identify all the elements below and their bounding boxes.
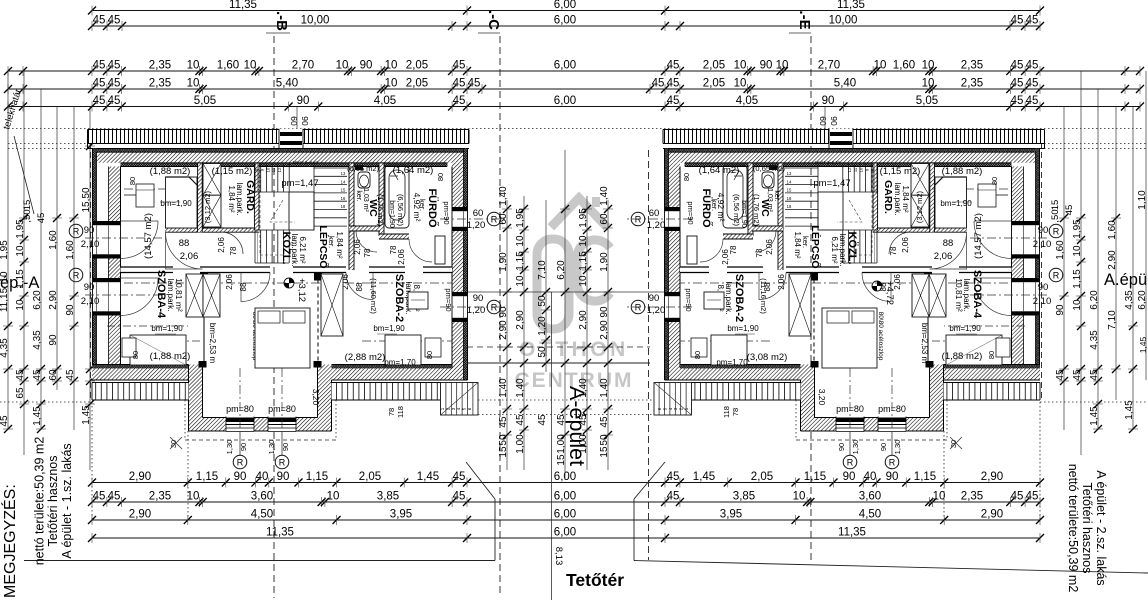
svg-text:1,15: 1,15 (306, 471, 328, 483)
svg-text:2,70: 2,70 (818, 60, 840, 72)
svg-text:1,00: 1,00 (556, 434, 567, 454)
svg-text:2,05: 2,05 (359, 471, 381, 483)
svg-text:2,06: 2,06 (934, 251, 953, 262)
svg-text:1,15: 1,15 (15, 269, 26, 289)
svg-text:R: R (635, 215, 642, 225)
svg-text:1,20: 1,20 (537, 316, 548, 336)
svg-text:(0,65 m2): (0,65 m2) (347, 164, 380, 173)
svg-text:10: 10 (578, 235, 589, 247)
svg-text:15: 15 (498, 446, 509, 458)
svg-text:ker.: ker. (355, 190, 362, 201)
building left: windows gap side (451, 207, 468, 231)
svg-text:90: 90 (829, 116, 839, 126)
svg-text:45: 45 (93, 60, 106, 72)
svg-text:6,00: 6,00 (554, 95, 576, 107)
svg-text:6,21 m²: 6,21 m² (298, 236, 307, 263)
svg-text:45: 45 (1011, 491, 1024, 503)
svg-text:10: 10 (859, 167, 864, 172)
svg-text:80: 80 (436, 173, 445, 181)
svg-text:A épület - 2.sz. lakás: A épület - 2.sz. lakás (1094, 470, 1108, 585)
svg-text:10,00: 10,00 (829, 15, 858, 27)
svg-text:pm=90: pm=90 (684, 288, 693, 311)
section line B (273, 36, 275, 598)
svg-text:2,05: 2,05 (751, 471, 773, 483)
section line C (499, 36, 501, 594)
svg-text:1,95: 1,95 (0, 240, 10, 260)
svg-text:2,06: 2,06 (721, 249, 730, 265)
svg-text:18: 18 (787, 204, 792, 209)
building right: roof overhang band (663, 130, 1045, 144)
svg-text:1,15: 1,15 (804, 471, 826, 483)
svg-text:R: R (279, 458, 286, 468)
svg-text:Tetőtéri hasznos: Tetőtéri hasznos (1080, 482, 1094, 573)
svg-text:bm=1,90: bm=1,90 (388, 200, 395, 228)
svg-text:2,90: 2,90 (981, 471, 1003, 483)
svg-text:10: 10 (922, 60, 935, 72)
svg-text:45: 45 (667, 95, 680, 107)
terrace level marks left (233, 455, 247, 469)
svg-text:80: 80 (131, 351, 140, 359)
svg-text:2,10: 2,10 (81, 296, 100, 307)
svg-text:1,10: 1,10 (1137, 190, 1148, 210)
svg-text:45: 45 (108, 15, 121, 27)
bottom dimension row 1 (92, 482, 1040, 484)
building left: level mark (284, 278, 294, 288)
svg-text:(1,15 m2): (1,15 m2) (212, 166, 253, 177)
svg-text:15: 15 (787, 188, 792, 193)
svg-text:5,05: 5,05 (194, 95, 216, 107)
svg-text:.-E: .-E (796, 10, 813, 29)
svg-text:45: 45 (578, 414, 589, 426)
svg-text:6,20: 6,20 (1137, 290, 1148, 310)
svg-text:45: 45 (1072, 369, 1083, 381)
svg-text:1,45: 1,45 (32, 406, 43, 426)
svg-text:45: 45 (667, 78, 680, 90)
svg-text:45: 45 (667, 491, 680, 503)
svg-text:90: 90 (360, 60, 373, 72)
svg-text:80: 80 (987, 351, 996, 359)
svg-text:pm=1,70: pm=1,70 (716, 358, 748, 367)
svg-text:10: 10 (385, 78, 398, 90)
svg-text:10: 10 (336, 60, 349, 72)
top dimension row 4 (8, 88, 1140, 90)
svg-text:11: 11 (853, 167, 858, 172)
svg-text:2,05: 2,05 (406, 60, 428, 72)
svg-text:88: 88 (179, 238, 190, 249)
svg-text:11,35: 11,35 (266, 527, 294, 539)
svg-text:90: 90 (1038, 282, 1049, 293)
svg-text:R: R (847, 458, 854, 468)
building right: WC (762, 172, 774, 188)
svg-text:,50: ,50 (1050, 209, 1061, 222)
building left: GARD wardrobe (203, 164, 221, 196)
svg-text:R: R (73, 227, 80, 237)
svg-text:3,60: 3,60 (859, 491, 881, 503)
svg-text:Tetőtéri hasznos: Tetőtéri hasznos (46, 455, 60, 546)
svg-text:18x17,2=3,12: 18x17,2=3,12 (292, 160, 318, 165)
building right: windows gap side (664, 207, 681, 231)
svg-text:pm=1,47: pm=1,47 (813, 178, 850, 189)
building left: FURDO bathroom (385, 165, 409, 228)
svg-text:2,05: 2,05 (703, 78, 725, 90)
svg-text:90: 90 (760, 60, 773, 72)
svg-text:(1,64 m2): (1,64 m2) (699, 165, 740, 176)
svg-text:2,35: 2,35 (961, 491, 983, 503)
svg-text:1,90: 1,90 (498, 252, 509, 272)
svg-text:10: 10 (244, 60, 257, 72)
svg-text:lam.park.: lam.park. (166, 279, 175, 312)
svg-text:45: 45 (652, 78, 665, 90)
svg-text:1,30: 1,30 (893, 440, 902, 455)
svg-text:ker.: ker. (773, 190, 780, 201)
svg-text:6,00: 6,00 (554, 491, 576, 503)
svg-text:(11,16 m2): (11,16 m2) (759, 278, 768, 314)
right dimension chains (1063, 107, 1065, 431)
svg-text:2,06: 2,06 (777, 274, 786, 290)
svg-text:1,84 m²: 1,84 m² (793, 231, 802, 258)
svg-text:10: 10 (734, 60, 747, 72)
svg-text:80: 80 (425, 351, 434, 359)
svg-text:2,90: 2,90 (515, 310, 526, 330)
svg-text:45: 45 (36, 213, 47, 224)
building left: WC (358, 172, 370, 188)
svg-text:45: 45 (65, 369, 76, 381)
svg-text:(14,57 m2): (14,57 m2) (143, 213, 154, 259)
svg-text:1,40: 1,40 (498, 186, 509, 206)
svg-text:bm=1,90: bm=1,90 (160, 199, 192, 208)
svg-text:4,35: 4,35 (1124, 290, 1135, 310)
svg-text:45: 45 (453, 60, 466, 72)
svg-text:SZOBA-4: SZOBA-4 (971, 270, 983, 319)
svg-text:6,00: 6,00 (554, 15, 576, 27)
svg-text:R: R (635, 303, 642, 313)
svg-text:90: 90 (281, 443, 290, 451)
svg-text:90: 90 (599, 306, 610, 318)
svg-text:2,90: 2,90 (129, 471, 151, 483)
svg-text:SZOBA-4: SZOBA-4 (155, 270, 167, 319)
svg-text:(1,76 m2): (1,76 m2) (752, 194, 761, 227)
svg-text:1,45: 1,45 (81, 405, 92, 425)
svg-text:45: 45 (15, 369, 26, 381)
svg-text:bm=1,90: bm=1,90 (740, 200, 747, 228)
svg-text:pm=1,47: pm=1,47 (281, 178, 318, 189)
svg-text:10: 10 (0, 271, 10, 283)
svg-text:1,84 m²: 1,84 m² (227, 185, 236, 212)
building left: interior partitions (121, 267, 174, 273)
svg-text:1,95: 1,95 (578, 208, 589, 228)
svg-text:.-B: .-B (273, 11, 290, 31)
svg-text:2,06: 2,06 (765, 239, 774, 255)
svg-text:1,15: 1,15 (196, 471, 218, 483)
svg-text:1,95: 1,95 (1072, 219, 1083, 239)
svg-text:10: 10 (187, 60, 200, 72)
svg-text:10: 10 (515, 235, 526, 247)
svg-text:2,90: 2,90 (981, 509, 1003, 521)
svg-text:40: 40 (864, 471, 877, 483)
building right: GARD wardrobe (911, 164, 929, 196)
svg-text:2,90: 2,90 (578, 310, 589, 330)
svg-text:2,05: 2,05 (703, 60, 725, 72)
ground outline (466, 462, 495, 499)
svg-text:pm=90: pm=90 (686, 201, 695, 224)
svg-text:18x17,2=3,12: 18x17,2=3,12 (814, 160, 840, 165)
svg-text:10: 10 (734, 78, 747, 90)
svg-text:1,90: 1,90 (599, 252, 610, 272)
svg-text:+3,12: +3,12 (296, 278, 307, 302)
svg-text:45: 45 (93, 491, 106, 503)
svg-text:7,10: 7,10 (1107, 310, 1118, 330)
svg-text:2,05: 2,05 (406, 78, 428, 90)
svg-text:11,15: 11,15 (0, 287, 10, 312)
svg-text:(1,88 m2): (1,88 m2) (942, 166, 983, 177)
svg-text:5,05: 5,05 (916, 95, 938, 107)
svg-text:15: 15 (599, 446, 610, 458)
svg-text:90: 90 (822, 95, 835, 107)
svg-text:4,92 m²: 4,92 m² (412, 193, 422, 222)
svg-text:45: 45 (93, 95, 106, 107)
building left: terrace bands (92, 383, 189, 401)
svg-text:50: 50 (599, 434, 610, 446)
svg-text:45: 45 (1064, 205, 1075, 216)
svg-text:16: 16 (787, 196, 792, 201)
svg-text:90: 90 (649, 293, 660, 304)
svg-text:12: 12 (847, 167, 852, 172)
svg-text:45: 45 (93, 15, 106, 27)
svg-text:10: 10 (776, 60, 789, 72)
svg-text:1,60: 1,60 (1107, 220, 1118, 240)
svg-text:10: 10 (15, 245, 26, 257)
svg-text:40: 40 (256, 471, 269, 483)
svg-text:bm=1,90: bm=1,90 (151, 324, 183, 333)
property line telekhatar (8, 128, 1142, 130)
svg-text:65: 65 (15, 387, 26, 399)
svg-text:90: 90 (234, 471, 247, 483)
svg-text:3,85: 3,85 (377, 491, 399, 503)
svg-text:11,35: 11,35 (837, 0, 865, 11)
svg-text:bm=2,53 m: bm=2,53 m (208, 323, 217, 364)
svg-text:10: 10 (793, 491, 806, 503)
svg-text:5,40: 5,40 (834, 78, 856, 90)
svg-text:60: 60 (649, 208, 660, 219)
svg-text:90: 90 (473, 293, 484, 304)
svg-text:6,00: 6,00 (554, 527, 576, 539)
svg-text:(2,88 m2): (2,88 m2) (345, 352, 386, 363)
svg-text:ker.: ker. (327, 236, 336, 248)
svg-text:90: 90 (837, 443, 846, 451)
svg-text:45: 45 (108, 78, 121, 90)
svg-text:4,35: 4,35 (0, 338, 10, 358)
svg-text:78: 78 (755, 248, 764, 257)
svg-text:4,50: 4,50 (859, 509, 881, 521)
svg-text:78: 78 (729, 245, 738, 254)
svg-text:1,60: 1,60 (48, 230, 59, 250)
svg-text:2,06: 2,06 (397, 249, 406, 265)
svg-text:50: 50 (537, 346, 548, 358)
svg-text:11,35: 11,35 (838, 527, 866, 539)
svg-text:45: 45 (93, 78, 106, 90)
svg-text:1,40: 1,40 (599, 186, 610, 206)
svg-text:3,20: 3,20 (817, 389, 827, 406)
svg-text:10,81 m²: 10,81 m² (954, 278, 964, 312)
top dimension row 1 (92, 10, 1040, 12)
svg-text:bm=1,90: bm=1,90 (727, 324, 759, 333)
building left: stairs (254, 164, 256, 193)
svg-text:60: 60 (48, 369, 59, 381)
svg-text:1,15: 1,15 (1072, 269, 1083, 289)
svg-text:2,90: 2,90 (129, 509, 151, 521)
svg-text:(1,76 m2): (1,76 m2) (376, 194, 385, 227)
building right: terrace bands (944, 383, 1041, 401)
svg-text:SZOBA-2: SZOBA-2 (393, 274, 405, 322)
svg-text:90: 90 (84, 225, 95, 236)
svg-text:3,95: 3,95 (720, 509, 742, 521)
svg-text:A.épület: A.épület (1104, 271, 1148, 289)
svg-text:11,35: 11,35 (229, 0, 257, 11)
svg-text:45: 45 (667, 471, 680, 483)
building left: door arcs mid wall (166, 232, 203, 269)
svg-text:(3,08 m2): (3,08 m2) (747, 352, 788, 363)
svg-text:80: 80 (128, 177, 137, 185)
building left: outer walls (92, 149, 468, 153)
svg-text:45: 45 (667, 60, 680, 72)
svg-text:4,35: 4,35 (32, 330, 43, 350)
svg-text:90: 90 (297, 95, 310, 107)
svg-text:60: 60 (599, 213, 610, 225)
bottom dimension row 4 (92, 537, 1040, 539)
svg-text:2,90: 2,90 (599, 320, 610, 340)
building right: outer walls (665, 149, 1041, 153)
svg-text:1,84 m²: 1,84 m² (335, 231, 344, 258)
center dimension chains (506, 200, 508, 470)
svg-text:15: 15 (22, 200, 33, 211)
svg-text:nettó területe:50,39 m2: nettó területe:50,39 m2 (33, 437, 47, 566)
svg-text:15,50: 15,50 (81, 187, 92, 212)
svg-text:10: 10 (874, 60, 887, 72)
svg-text:10: 10 (1072, 299, 1083, 311)
svg-text:45: 45 (453, 491, 466, 503)
svg-text:1,00: 1,00 (578, 434, 589, 454)
svg-text:(1,15 m2): (1,15 m2) (880, 166, 921, 177)
svg-text:2,10: 2,10 (1033, 239, 1052, 250)
svg-text:bm=2,53 m: bm=2,53 m (920, 323, 929, 364)
svg-text:1,20: 1,20 (467, 220, 486, 231)
svg-text:45: 45 (1026, 15, 1039, 27)
svg-text:90: 90 (843, 471, 856, 483)
svg-text:2,06: 2,06 (225, 274, 234, 290)
svg-text:13: 13 (341, 171, 346, 176)
svg-text:90: 90 (879, 443, 888, 451)
svg-text:1,40: 1,40 (515, 378, 526, 398)
svg-text:90: 90 (300, 116, 310, 126)
svg-text:1,20: 1,20 (647, 220, 666, 231)
svg-text:88: 88 (943, 238, 954, 249)
svg-text:1,60: 1,60 (1055, 240, 1066, 260)
svg-text:2,90: 2,90 (48, 290, 59, 310)
svg-text:2,35: 2,35 (149, 78, 171, 90)
section line E (810, 36, 812, 560)
svg-text:4,50: 4,50 (251, 509, 273, 521)
svg-text:18: 18 (341, 204, 346, 209)
left dimension chains (7, 71, 9, 430)
svg-text:1,15: 1,15 (515, 251, 526, 271)
svg-text:45: 45 (599, 416, 610, 428)
svg-text:4,92 m²: 4,92 m² (716, 193, 726, 222)
svg-text:A épület - 1.sz. lakás: A épület - 1.sz. lakás (60, 443, 74, 558)
svg-text:1,03 m²: 1,03 m² (362, 188, 369, 212)
svg-text:50: 50 (537, 295, 548, 307)
svg-text:1,40: 1,40 (599, 378, 610, 398)
svg-text:2,06: 2,06 (180, 251, 199, 262)
svg-text:1,60: 1,60 (893, 60, 915, 72)
svg-text:10: 10 (327, 491, 340, 503)
svg-text:13: 13 (787, 171, 792, 176)
bottom dimension row 3 (92, 519, 1040, 521)
svg-text:5,40: 5,40 (276, 78, 298, 90)
svg-text:(6,56 m2): (6,56 m2) (396, 194, 405, 227)
svg-text:90: 90 (84, 282, 95, 293)
svg-text:4,05: 4,05 (736, 95, 758, 107)
building right: outside stairs (654, 383, 692, 416)
watermark Otthon Centrum logo (537, 197, 610, 329)
svg-text:45: 45 (108, 95, 121, 107)
svg-text:1,60: 1,60 (65, 240, 76, 260)
svg-text:10: 10 (187, 78, 200, 90)
svg-text:GARD.: GARD. (244, 180, 256, 214)
building right: terrace dashed outline (796, 439, 947, 441)
svg-text:1,45: 1,45 (693, 471, 715, 483)
svg-text:90: 90 (239, 443, 248, 451)
svg-text:2,06: 2,06 (217, 237, 226, 253)
svg-text:2,35: 2,35 (149, 60, 171, 72)
svg-text:GARD.: GARD. (882, 180, 894, 214)
svg-text:OTTHON: OTTHON (519, 338, 629, 361)
svg-text:45: 45 (1026, 95, 1039, 107)
building left: outside stairs (441, 383, 479, 416)
svg-text:pm=90: pm=90 (442, 201, 451, 224)
building right: windows left facade (1011, 221, 1041, 259)
terrace level marks right (885, 455, 899, 469)
svg-text:7,10: 7,10 (537, 260, 548, 280)
svg-text:1,45: 1,45 (417, 471, 439, 483)
svg-text:45: 45 (453, 471, 466, 483)
svg-text:80\80 acéloszlop: 80\80 acéloszlop (877, 312, 884, 361)
bottom dimension row 2 (92, 501, 1040, 503)
building right: level mark (872, 281, 882, 291)
svg-text:60: 60 (473, 208, 484, 219)
building right: door arcs mid wall (930, 232, 967, 269)
svg-text:6,20: 6,20 (32, 290, 43, 310)
svg-text:78: 78 (229, 246, 238, 255)
svg-text:10: 10 (265, 167, 270, 172)
svg-text:1,60: 1,60 (217, 60, 239, 72)
svg-text:(3,12 m2): (3,12 m2) (915, 190, 924, 223)
svg-text:(6,56 m2): (6,56 m2) (732, 194, 741, 227)
svg-text:1,03 m²: 1,03 m² (766, 188, 773, 212)
svg-text:R: R (491, 215, 498, 225)
building right: FURDO bathroom (723, 165, 747, 228)
svg-text:45: 45 (1011, 60, 1024, 72)
svg-text:3,85: 3,85 (733, 491, 755, 503)
svg-text:78: 78 (731, 408, 740, 416)
svg-text:45: 45 (537, 414, 548, 426)
svg-text:14: 14 (787, 179, 792, 184)
svg-text:12: 12 (277, 167, 282, 172)
svg-text:(0,65 m2): (0,65 m2) (753, 164, 786, 173)
svg-text:bm=1,90: bm=1,90 (940, 199, 972, 208)
svg-text:10: 10 (515, 275, 526, 287)
svg-text:2,70: 2,70 (292, 60, 314, 72)
svg-text:45: 45 (1026, 60, 1039, 72)
